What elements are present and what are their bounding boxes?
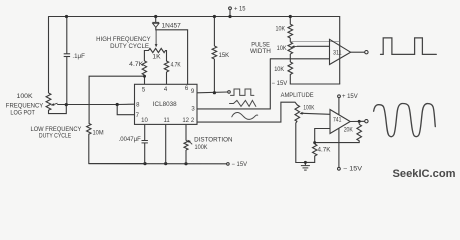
svg-text:10M: 10M bbox=[93, 131, 104, 137]
svg-text:.1μF: .1μF bbox=[72, 54, 85, 60]
svg-text:4.7K: 4.7K bbox=[318, 147, 331, 153]
svg-text:WIDTH: WIDTH bbox=[250, 49, 271, 55]
svg-text:DUTY CYCLE: DUTY CYCLE bbox=[110, 44, 149, 50]
svg-text:− 15V: − 15V bbox=[272, 81, 288, 87]
svg-text:+ 15: + 15 bbox=[234, 6, 246, 12]
svg-text:100K: 100K bbox=[17, 94, 33, 100]
svg-text:DUTY CYCLE: DUTY CYCLE bbox=[39, 133, 71, 139]
svg-text:+ 15V: + 15V bbox=[342, 94, 358, 100]
svg-text:PULSE: PULSE bbox=[251, 42, 270, 48]
svg-text:741: 741 bbox=[333, 117, 342, 124]
svg-text:HIGH FREQUENCY: HIGH FREQUENCY bbox=[96, 37, 150, 43]
svg-text:4.7K: 4.7K bbox=[171, 63, 181, 69]
svg-text:LOG POT: LOG POT bbox=[10, 110, 35, 116]
svg-text:LOW FREQUENCY: LOW FREQUENCY bbox=[31, 127, 82, 133]
svg-text:ICL8038: ICL8038 bbox=[153, 101, 177, 108]
svg-text:100K: 100K bbox=[195, 145, 208, 151]
svg-text:100K: 100K bbox=[303, 106, 314, 112]
svg-text:FREQUENCY: FREQUENCY bbox=[6, 104, 44, 110]
svg-text:15K: 15K bbox=[219, 53, 230, 59]
svg-text:− 15V: − 15V bbox=[232, 162, 248, 168]
svg-text:12: 12 bbox=[182, 118, 189, 124]
svg-text:10K: 10K bbox=[277, 46, 287, 52]
svg-text:4.7K: 4.7K bbox=[129, 62, 143, 68]
svg-text:AMPLITUDE: AMPLITUDE bbox=[281, 93, 314, 99]
svg-text:.0047μF: .0047μF bbox=[119, 137, 142, 143]
svg-text:10: 10 bbox=[141, 118, 148, 124]
svg-text:− 15V: − 15V bbox=[343, 167, 362, 173]
svg-text:10K: 10K bbox=[274, 67, 284, 73]
svg-text:SeekIC.com: SeekIC.com bbox=[393, 168, 456, 180]
svg-text:DISTORTION: DISTORTION bbox=[194, 138, 232, 144]
svg-text:10K: 10K bbox=[276, 27, 286, 33]
svg-text:1K: 1K bbox=[152, 55, 160, 61]
svg-text:11: 11 bbox=[163, 118, 170, 124]
svg-text:20K: 20K bbox=[344, 127, 353, 133]
svg-text:1N457: 1N457 bbox=[162, 24, 182, 30]
svg-text:311: 311 bbox=[333, 50, 342, 57]
